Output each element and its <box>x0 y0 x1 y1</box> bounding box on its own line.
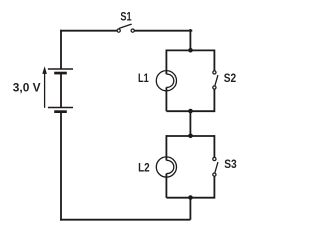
svg-text:S1: S1 <box>120 9 131 23</box>
node A junction dot <box>188 48 193 53</box>
wire between boxes <box>189 111 191 136</box>
node D junction dot <box>188 195 193 200</box>
wire box1 left lower <box>165 87 167 111</box>
lamp L1 <box>156 71 176 91</box>
wire box2 right upper <box>213 135 215 159</box>
switch S2 <box>213 71 218 89</box>
wire box1 left upper <box>165 50 167 75</box>
wire box2 right lower <box>213 175 215 199</box>
wire top-left horizontal <box>60 30 119 32</box>
svg-text:L2: L2 <box>138 161 150 175</box>
voltage arrow <box>42 66 47 107</box>
wire box2 bottom <box>166 197 214 199</box>
switch S1 <box>117 24 134 32</box>
wire left vertical upper <box>60 30 62 69</box>
svg-text:S3: S3 <box>224 157 237 171</box>
wire box2 left lower <box>165 174 167 198</box>
node C junction dot <box>188 134 193 139</box>
svg-text:L1: L1 <box>138 71 149 85</box>
wire drop from node D to bottom wire <box>189 198 191 220</box>
svg-text:3,0 V: 3,0 V <box>13 81 42 95</box>
lamp L2 <box>156 157 176 177</box>
wire top-right horizontal <box>133 30 193 32</box>
wire bottom horizontal <box>60 219 190 221</box>
wire box2 left upper <box>165 135 167 160</box>
wire box1 right upper <box>213 50 215 73</box>
svg-text:S2: S2 <box>224 71 237 85</box>
wire drop to node A <box>189 29 191 50</box>
wire box1 bottom <box>166 110 214 112</box>
wire box2 top <box>166 135 214 137</box>
battery B1 <box>48 69 73 113</box>
wire between battery cells <box>60 74 62 108</box>
wire box1 right lower <box>213 88 215 113</box>
switch S3 <box>213 157 218 176</box>
wire box1 top <box>166 49 214 51</box>
node B junction dot <box>188 109 193 114</box>
wire left vertical lower <box>60 112 62 221</box>
